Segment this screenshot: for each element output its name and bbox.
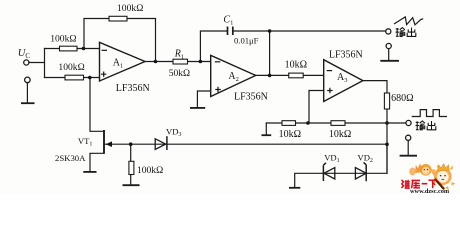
svg-text:www.dzsc.com: www.dzsc.com <box>410 188 450 194</box>
svg-text:LF356N: LF356N <box>234 92 268 103</box>
svg-text:0.01μF: 0.01μF <box>234 35 259 45</box>
svg-text:100kΩ: 100kΩ <box>137 165 163 176</box>
svg-text:10kΩ: 10kΩ <box>279 129 301 140</box>
svg-text:100kΩ: 100kΩ <box>117 3 143 14</box>
svg-text:10kΩ: 10kΩ <box>285 60 307 71</box>
svg-text:LF356N: LF356N <box>329 49 363 60</box>
svg-text:2SK30A: 2SK30A <box>55 153 86 163</box>
svg-text:50kΩ: 50kΩ <box>169 69 190 79</box>
svg-text:680Ω: 680Ω <box>391 93 413 104</box>
svg-text:100kΩ: 100kΩ <box>58 62 84 73</box>
svg-text:LF356N: LF356N <box>116 83 150 94</box>
svg-text:10kΩ: 10kΩ <box>329 129 351 140</box>
svg-text:100kΩ: 100kΩ <box>50 34 76 45</box>
